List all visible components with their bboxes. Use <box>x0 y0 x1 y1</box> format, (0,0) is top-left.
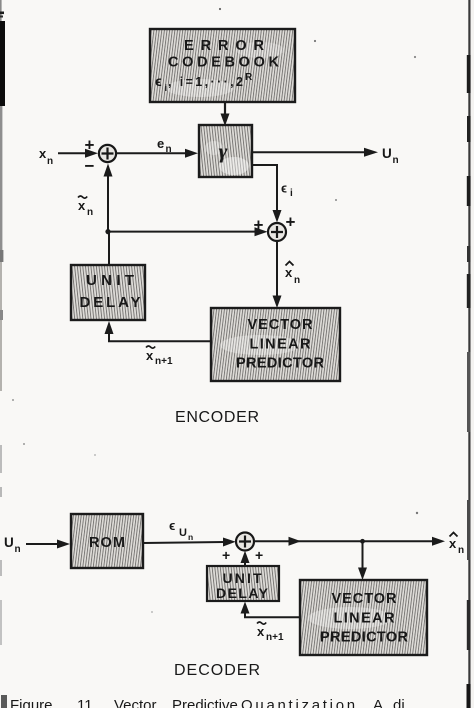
svg-text:x: x <box>257 624 265 639</box>
node epsilon_i label <box>281 182 293 200</box>
svg-text:x: x <box>78 198 86 213</box>
wire quantizer to Un output <box>252 148 378 157</box>
svg-text:n: n <box>47 156 53 167</box>
svg-text:DECODER: DECODER <box>174 662 260 679</box>
scan gutter artifacts left edge <box>0 0 153 708</box>
svg-text:, i=1,···,2: , i=1,···,2 <box>168 75 243 89</box>
svg-text:+: + <box>286 213 296 232</box>
svg-text:ϵ: ϵ <box>169 518 175 533</box>
svg-text:DELAY: DELAY <box>216 585 269 601</box>
node xtilde_n label <box>78 196 93 218</box>
svg-text:VECTOR: VECTOR <box>248 317 314 333</box>
svg-text:e: e <box>157 136 164 151</box>
svg-text:n+1: n+1 <box>155 356 173 367</box>
wire unit delay up to adder1 <box>104 164 113 266</box>
svg-text:U: U <box>4 535 14 550</box>
wire adder3 to xhat output <box>254 537 445 546</box>
node xn input label <box>39 146 53 167</box>
wire codebook to quantizer <box>221 103 230 126</box>
svg-text:Predictive: Predictive <box>172 697 238 708</box>
scan line right edge <box>468 0 470 708</box>
svg-text:A: A <box>373 697 383 708</box>
svg-text:DELAY: DELAY <box>80 294 141 311</box>
wire quantizer to adder2 <box>252 165 282 223</box>
svg-text:ENCODER: ENCODER <box>175 409 259 426</box>
unit delay box (decoder) <box>207 566 279 601</box>
svg-text:i: i <box>165 83 168 94</box>
svg-text:UNIT: UNIT <box>86 272 134 289</box>
svg-text:di: di <box>393 697 405 708</box>
wire ROM to adder3 <box>143 538 236 547</box>
junction node <box>105 229 110 234</box>
node xtilde_n+1 decoder label <box>257 622 284 643</box>
error codebook box <box>150 29 295 102</box>
wire adder2 to predictor <box>273 241 282 308</box>
ROM box <box>71 514 143 568</box>
svg-text:n: n <box>87 207 93 218</box>
svg-text:11.: 11. <box>77 697 97 708</box>
node Un input label <box>4 535 21 555</box>
svg-text:i: i <box>290 188 293 199</box>
svg-text:n: n <box>15 544 21 555</box>
quantizer box U1 gamma <box>199 125 252 177</box>
wire adder1 to quantizer <box>116 149 198 158</box>
svg-text:n: n <box>458 545 464 556</box>
wire xn to adder1 <box>58 149 98 158</box>
adder3 summing junction <box>236 533 254 551</box>
svg-text:+: + <box>222 547 230 563</box>
node en label <box>157 136 172 155</box>
wire predictor2 to unit delay2 <box>241 602 301 618</box>
unit delay box (encoder) <box>71 265 145 320</box>
svg-text:U: U <box>382 146 392 161</box>
svg-text:Quantization.: Quantization. <box>241 697 362 708</box>
svg-text:x: x <box>39 146 47 161</box>
svg-text:R: R <box>245 72 253 83</box>
svg-text:Figure: Figure <box>10 697 53 708</box>
node xhat_n output label <box>449 533 464 557</box>
svg-text:CODEBOOK: CODEBOOK <box>168 55 280 71</box>
wire feedback to adder2 <box>108 227 268 236</box>
junction node decoder <box>360 539 365 544</box>
svg-text:+: + <box>255 547 263 563</box>
svg-text:n: n <box>166 144 172 155</box>
wire predictor to unit delay <box>105 321 212 341</box>
wire Un to ROM <box>26 540 70 549</box>
svg-text:γ: γ <box>219 139 228 163</box>
specks <box>219 8 221 10</box>
svg-text:PREDICTOR: PREDICTOR <box>236 356 325 372</box>
adder2 summing junction <box>268 223 286 241</box>
svg-text:n: n <box>393 155 399 166</box>
svg-text:−: − <box>85 157 95 176</box>
wire junction down to predictor2 <box>358 541 367 580</box>
svg-text:U: U <box>179 527 187 539</box>
svg-text:ROM: ROM <box>89 535 125 551</box>
svg-text:x: x <box>285 265 293 280</box>
svg-text:ϵ: ϵ <box>281 182 287 196</box>
svg-text:VECTOR: VECTOR <box>332 591 398 607</box>
svg-text:PREDICTOR: PREDICTOR <box>320 630 409 646</box>
node xhat_n label <box>285 262 300 287</box>
svg-text:n: n <box>188 532 193 542</box>
svg-text:x: x <box>146 348 154 363</box>
svg-text:Vector: Vector <box>114 697 157 708</box>
wire unit delay2 up to adder3 <box>241 551 250 566</box>
vector linear predictor box (encoder) <box>211 308 340 381</box>
svg-text:UNIT: UNIT <box>223 570 262 586</box>
svg-text:+: + <box>85 136 95 155</box>
adder1 summing junction <box>99 145 116 162</box>
vector linear predictor box (decoder) <box>300 580 427 655</box>
svg-text:n+1: n+1 <box>266 632 284 643</box>
node Un label <box>382 146 399 166</box>
svg-text:ϵ: ϵ <box>155 73 162 89</box>
svg-text:x: x <box>449 536 457 551</box>
svg-text:n: n <box>294 275 300 286</box>
node xtilde_n+1 label <box>146 346 173 367</box>
node epsilon_Un label <box>169 518 193 542</box>
